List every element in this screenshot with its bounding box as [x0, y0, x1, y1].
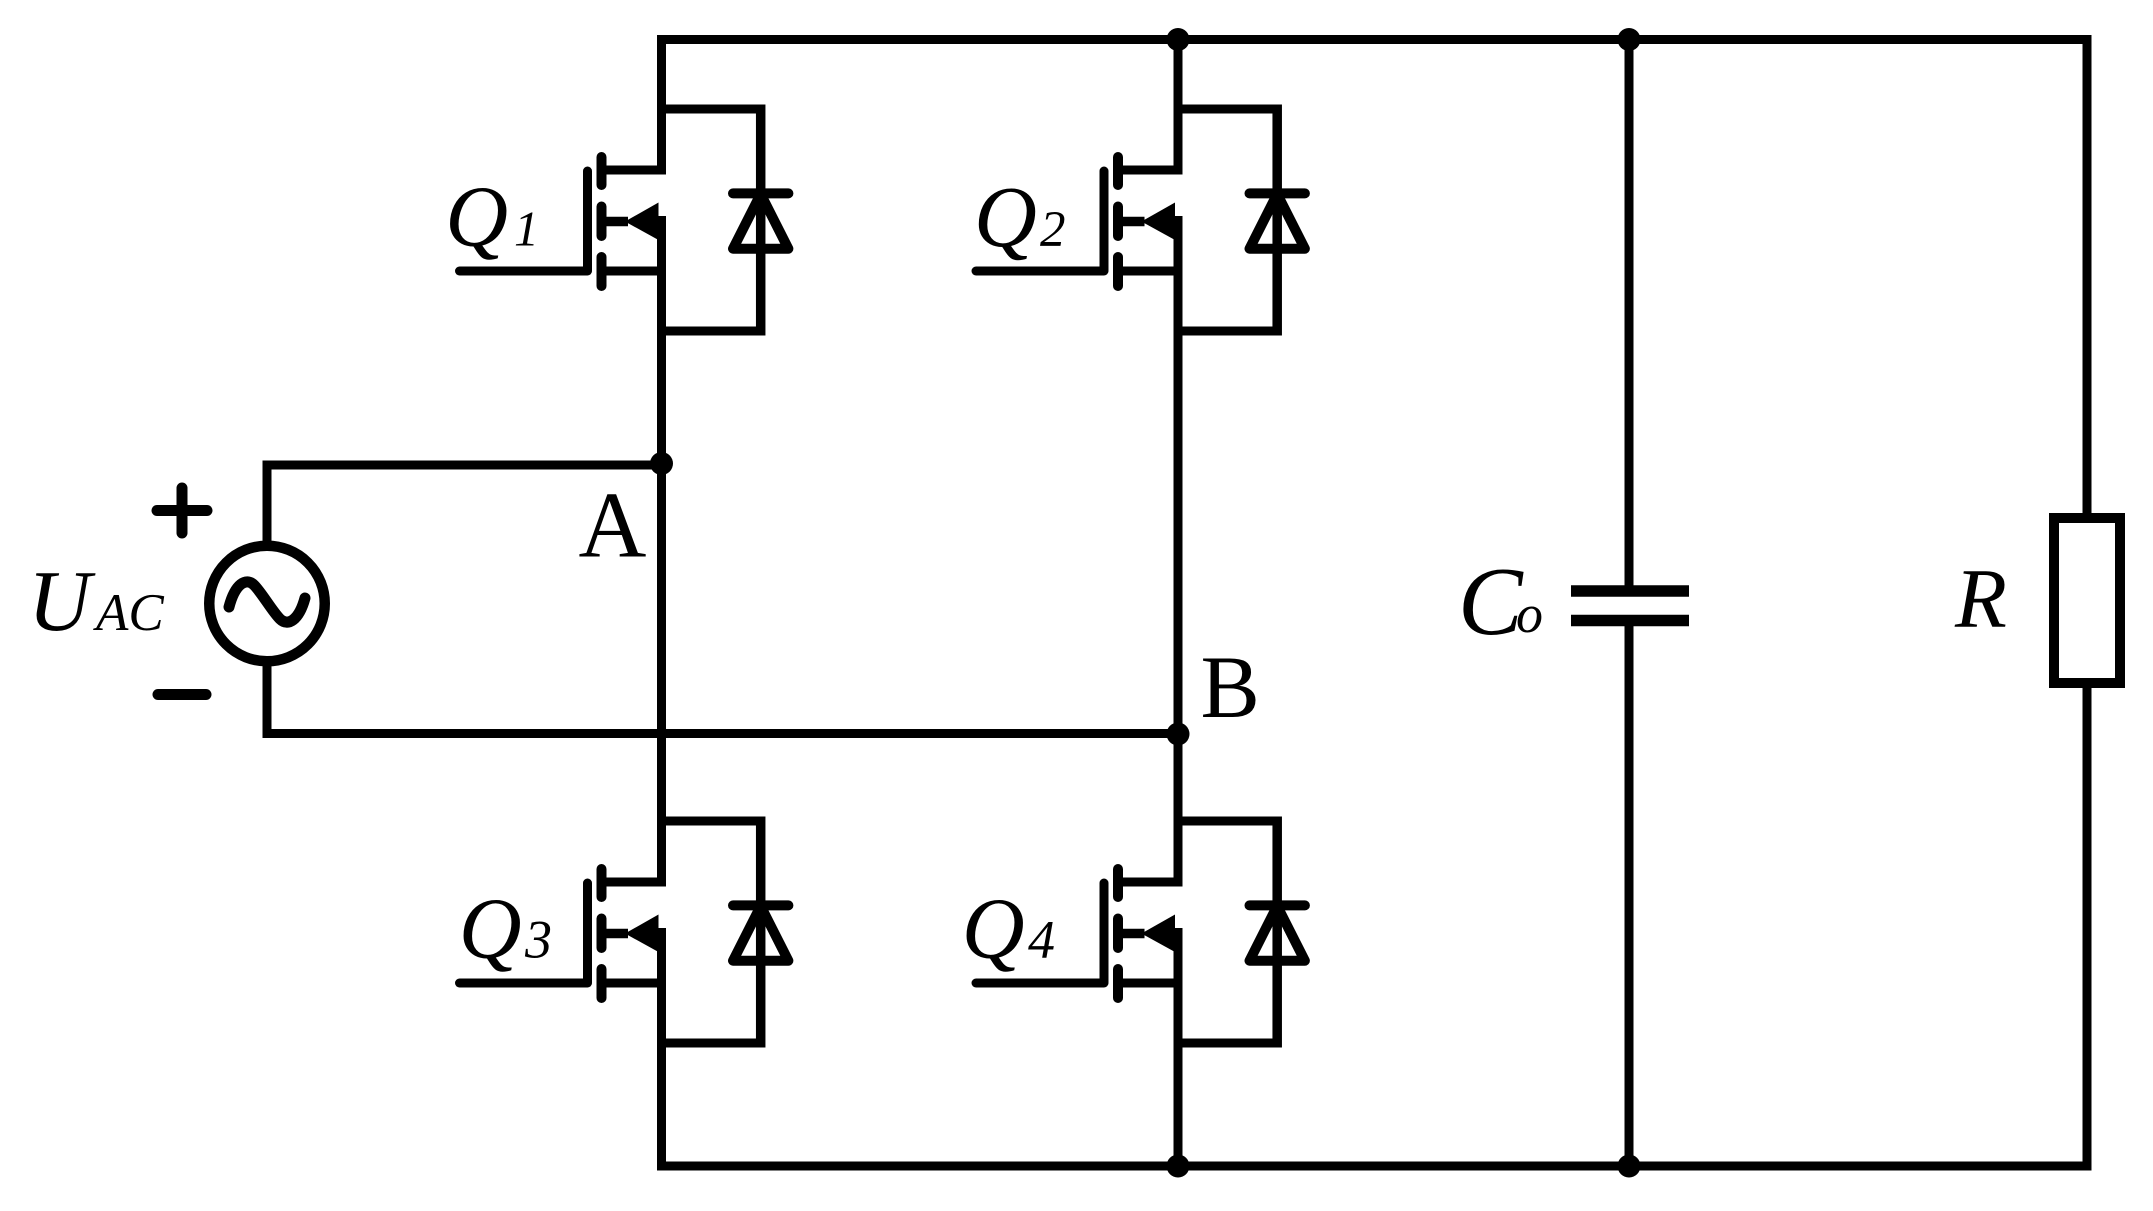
- junction dot top rail / Co branch: [1618, 28, 1641, 51]
- body diode of Q1: [657, 105, 788, 336]
- label Q1: [445, 168, 539, 265]
- svg-text:AC: AC: [93, 584, 164, 642]
- resistor R: [2054, 518, 2120, 683]
- svg-text:Q: Q: [962, 880, 1025, 977]
- wire right leg: Q4 source to bottom rail: [1174, 928, 1183, 1171]
- node A junction dot: [650, 452, 673, 475]
- label UAC: [28, 552, 164, 649]
- svg-text:Q: Q: [974, 168, 1037, 265]
- capacitor Co: [1571, 591, 1689, 621]
- svg-text:o: o: [1516, 584, 1543, 644]
- body diode of Q4: [1174, 817, 1305, 1048]
- wire R top lead: [2083, 35, 2092, 520]
- junction dot bottom rail / right leg: [1167, 1155, 1190, 1178]
- svg-text:3: 3: [524, 910, 552, 970]
- wire R bottom lead: [2083, 681, 2092, 1171]
- junction dot top rail / right leg: [1167, 28, 1190, 51]
- transistor Q4 (N-MOSFET): [976, 869, 1183, 998]
- wire bottom rail (negative output bus): [657, 1162, 2092, 1171]
- ac source UAC (sine voltage source): [209, 546, 325, 662]
- transistor Q3 (N-MOSFET): [460, 869, 667, 998]
- junction dot bottom rail / Co branch: [1618, 1155, 1641, 1178]
- svg-text:Q: Q: [459, 880, 522, 977]
- wire Co top lead: [1625, 35, 1634, 586]
- svg-text:B: B: [1201, 639, 1260, 737]
- svg-text:A: A: [579, 474, 647, 578]
- svg-text:2: 2: [1040, 202, 1066, 258]
- svg-text:4: 4: [1028, 910, 1055, 970]
- body diode of Q3: [657, 817, 788, 1048]
- wire left leg: Q3 source to bottom rail: [657, 928, 666, 1171]
- label Q2: [974, 168, 1066, 265]
- wire Co bottom lead: [1625, 626, 1634, 1171]
- wire AC- terminal to node B: [263, 660, 1183, 738]
- label Q4: [962, 880, 1055, 977]
- transistor Q1 (N-MOSFET): [460, 157, 667, 286]
- wire AC+ terminal to node A: [263, 465, 667, 547]
- node B junction dot: [1167, 723, 1190, 746]
- minus polarity mark: [158, 689, 206, 700]
- label Co: [1458, 548, 1543, 655]
- wire left leg: top rail to Q1 drain: [657, 35, 666, 175]
- svg-text:C: C: [1458, 548, 1524, 655]
- svg-text:U: U: [28, 552, 96, 649]
- label Q3: [459, 880, 552, 977]
- wire right leg: Q2 source through node B to Q4 drain: [1174, 216, 1183, 887]
- svg-text:1: 1: [514, 201, 539, 257]
- svg-text:Q: Q: [445, 168, 508, 265]
- wire top rail (positive output bus): [657, 35, 2092, 44]
- body diode of Q2: [1174, 105, 1305, 336]
- wire right leg: top rail to Q2 drain: [1174, 35, 1183, 175]
- plus polarity mark: [157, 488, 207, 533]
- transistor Q2 (N-MOSFET): [976, 157, 1183, 286]
- wire left leg: Q1 source through node A to Q3 drain: [657, 216, 666, 887]
- svg-text:R: R: [1954, 552, 2007, 646]
